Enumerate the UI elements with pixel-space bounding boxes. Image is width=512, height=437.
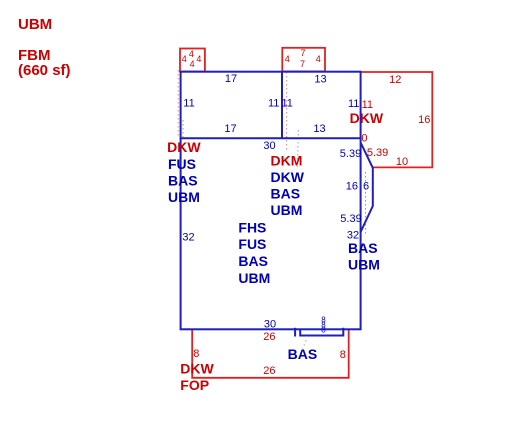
svg-text:4: 4 <box>190 59 195 69</box>
dashed tie mark below notch <box>302 340 306 351</box>
svg-text:7: 7 <box>300 59 305 69</box>
svg-text:BAS: BAS <box>168 172 198 188</box>
svg-text:FHS: FHS <box>238 219 266 235</box>
dashed tie line center violet <box>297 130 298 167</box>
svg-text:16: 16 <box>346 180 358 192</box>
svg-text:0: 0 <box>361 133 367 145</box>
main outline rectangle <box>181 72 361 330</box>
svg-text:30: 30 <box>264 319 276 331</box>
dashed hidden wall line in bay <box>365 172 367 236</box>
svg-text:UBM: UBM <box>271 202 303 218</box>
svg-text:17: 17 <box>224 123 236 135</box>
svg-text:5.39: 5.39 <box>340 148 361 160</box>
svg-text:32: 32 <box>182 232 194 244</box>
svg-text:6: 6 <box>363 180 369 192</box>
dashed tie line center red <box>286 72 288 152</box>
svg-text:17: 17 <box>225 73 237 85</box>
svg-text:11: 11 <box>281 98 292 110</box>
svg-text:11: 11 <box>362 99 373 111</box>
porch box 1 outline <box>180 49 205 72</box>
dashed tie line left <box>177 70 179 136</box>
svg-text:DKW: DKW <box>271 169 305 185</box>
svg-text:8: 8 <box>321 326 326 335</box>
interior horizontal wall <box>181 137 361 139</box>
svg-text:FOP: FOP <box>180 377 209 393</box>
interior vertical wall <box>281 72 283 139</box>
svg-text:30: 30 <box>263 140 275 152</box>
dashed tie line left short blue <box>182 120 184 137</box>
svg-text:DKW: DKW <box>350 110 384 126</box>
svg-text:4: 4 <box>189 49 194 59</box>
svg-text:4: 4 <box>182 54 187 64</box>
svg-text:4: 4 <box>316 54 321 64</box>
svg-text:UBM: UBM <box>168 189 200 205</box>
svg-text:DKW: DKW <box>180 360 214 376</box>
bay bump outline <box>361 143 373 233</box>
svg-text:UBM: UBM <box>238 270 270 286</box>
svg-text:10: 10 <box>396 156 408 168</box>
svg-text:12: 12 <box>389 74 401 86</box>
svg-text:BAS: BAS <box>348 240 378 256</box>
svg-text:4: 4 <box>196 54 201 64</box>
svg-text:8: 8 <box>193 348 199 360</box>
bottom red region outline <box>192 330 349 378</box>
svg-text:26: 26 <box>263 331 275 343</box>
svg-text:11: 11 <box>268 98 279 110</box>
svg-text:26: 26 <box>263 365 275 377</box>
svg-text:UBM: UBM <box>348 257 380 273</box>
svg-text:8: 8 <box>340 349 346 361</box>
right red region outline <box>361 72 433 167</box>
svg-text:FUS: FUS <box>168 156 196 172</box>
svg-text:DKW: DKW <box>167 139 201 155</box>
svg-text:UBM: UBM <box>18 16 52 33</box>
svg-text:FUS: FUS <box>238 236 266 252</box>
svg-text:5.39: 5.39 <box>367 147 388 159</box>
tick mark left of notch <box>294 328 296 337</box>
porch box 2 outline <box>282 48 325 72</box>
svg-text:16: 16 <box>418 114 430 126</box>
svg-text:4: 4 <box>285 54 290 64</box>
svg-text:13: 13 <box>314 74 326 86</box>
svg-text:11: 11 <box>348 98 359 110</box>
notch below bottom wall <box>300 328 343 336</box>
svg-text:13: 13 <box>313 123 325 135</box>
svg-text:(660 sf): (660 sf) <box>18 62 71 79</box>
svg-text:7: 7 <box>300 48 305 58</box>
svg-text:BAS: BAS <box>238 253 268 269</box>
svg-text:11: 11 <box>183 97 194 109</box>
svg-text:5.39: 5.39 <box>340 213 361 225</box>
svg-text:BAS: BAS <box>271 186 301 202</box>
svg-text:DKM: DKM <box>271 152 303 168</box>
